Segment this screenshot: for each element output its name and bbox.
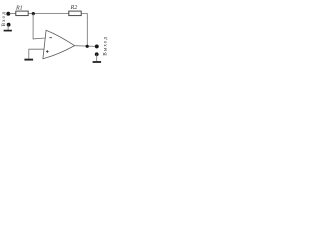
right common terminal dot — [95, 52, 99, 56]
svg-text:Вход: Вход — [2, 12, 7, 27]
output terminal dot — [95, 44, 99, 48]
node A junction dot — [32, 12, 35, 15]
circuit schematic: inverting op-amp amplifier — [0, 0, 110, 70]
svg-text:Выход: Выход — [104, 37, 109, 56]
plus sign (non-inverting input) — [46, 50, 49, 53]
svg-text:R2: R2 — [70, 5, 78, 11]
resistor R2 — [69, 11, 81, 16]
wire non-inverting input to ground — [29, 49, 44, 59]
svg-text:R1: R1 — [15, 6, 23, 12]
left common terminal dot — [7, 23, 11, 27]
wire feedback node down to inverting input — [33, 14, 45, 39]
wire right common to ground — [96, 54, 98, 61]
ground bar (op-amp + input) — [24, 59, 33, 61]
wire input to R1 — [10, 13, 16, 15]
ground bar (left input common) — [4, 30, 12, 32]
resistor R1 — [16, 11, 28, 16]
input terminal dot — [6, 12, 10, 16]
minus sign (inverting input) — [49, 37, 52, 39]
wire op-amp output — [75, 45, 97, 48]
op-amp U1 triangle — [43, 30, 75, 59]
ground bar (output common) — [93, 61, 102, 63]
output feedback junction dot — [86, 45, 89, 48]
wire R2 to output node — [81, 14, 87, 47]
wire left common to ground — [7, 25, 9, 30]
wire R1 to R2 — [28, 13, 69, 15]
